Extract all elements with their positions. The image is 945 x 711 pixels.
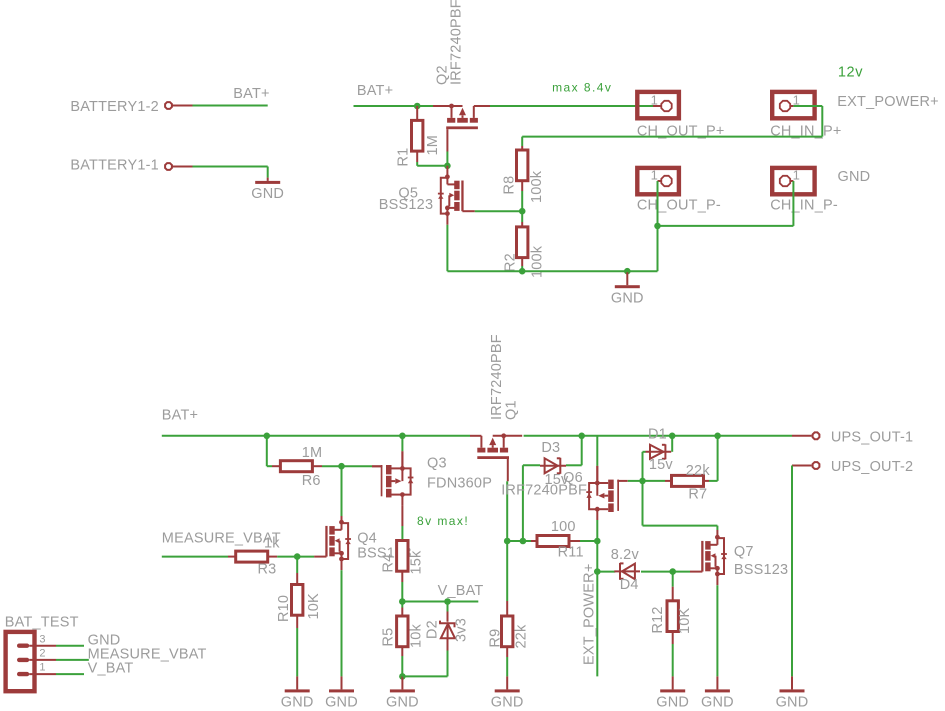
junction R11/EXT_POWER+ bbox=[594, 538, 601, 545]
junction GND stub bbox=[624, 268, 631, 275]
wire R6 to node bbox=[322, 465, 342, 467]
wire node to R5 bbox=[401, 602, 403, 608]
connector CH_IN_P+ bbox=[772, 92, 814, 118]
wire node down to R9 bbox=[506, 541, 508, 601]
svg-text:10k: 10k bbox=[409, 623, 425, 648]
ground GND1 bbox=[267, 178, 269, 181]
connector CH_IN_P- bbox=[772, 168, 814, 194]
wire UPS_OUT rail bbox=[524, 435, 792, 437]
pin line BATTERY1-2 bbox=[172, 105, 192, 107]
svg-text:GND: GND bbox=[838, 169, 871, 185]
svg-text:100: 100 bbox=[551, 519, 576, 535]
wire CH_OUT_P- to CH_IN_P- bbox=[658, 225, 794, 227]
R10 top lead bbox=[296, 573, 298, 585]
wire D4 to R12 node bbox=[641, 571, 673, 573]
svg-text:MEASURE_VBAT: MEASURE_VBAT bbox=[162, 531, 281, 547]
wire node to Q4 gate bbox=[297, 556, 314, 558]
wire across to R8 bbox=[522, 136, 822, 138]
wire node down to Q4 bbox=[341, 466, 343, 516]
ground GND R5 bbox=[401, 676, 403, 689]
R1 top lead bbox=[416, 106, 418, 120]
resistor R3 1k bbox=[236, 551, 268, 562]
pin line UPS_OUT-1 bbox=[792, 435, 812, 437]
resistor R8 100k bbox=[517, 150, 528, 181]
svg-text:BAT+: BAT+ bbox=[357, 83, 393, 99]
wire down to ground bbox=[267, 167, 269, 178]
diode D2 zener 3v3 bbox=[439, 621, 455, 639]
wire R2 to rail bbox=[521, 266, 523, 271]
svg-text:15v: 15v bbox=[649, 457, 674, 473]
svg-text:1M: 1M bbox=[302, 445, 323, 461]
pin line BAT_TEST 2 bbox=[29, 659, 56, 661]
diode D4 zener 8.2v bbox=[614, 563, 640, 580]
wire down to Q7 bbox=[716, 526, 718, 530]
svg-text:R10: R10 bbox=[276, 595, 292, 622]
junction D3 anode/R11 bbox=[520, 538, 527, 545]
junction Q3 source branch bbox=[399, 433, 406, 440]
Q3 gate lead wire bbox=[372, 465, 381, 467]
svg-text:1: 1 bbox=[793, 168, 800, 183]
wire net GND from BATTERY1-1 bbox=[193, 166, 268, 168]
svg-text:EXT_POWER+: EXT_POWER+ bbox=[837, 94, 939, 110]
R11 left lead bbox=[531, 540, 537, 542]
svg-text:Q4: Q4 bbox=[357, 531, 377, 547]
wire to rail bbox=[717, 436, 719, 481]
resistor R5 10k bbox=[397, 616, 408, 647]
transistor Q4 BSS123 bbox=[314, 520, 351, 570]
pin line CH_IN_P- bbox=[790, 180, 794, 182]
wire Q2 gate to node bbox=[446, 152, 448, 166]
ground GND Q4 bbox=[341, 676, 343, 689]
svg-text:R4: R4 bbox=[381, 554, 397, 573]
resistor R7 22k bbox=[672, 475, 704, 486]
junction Q6 gate/D1/R7 bbox=[639, 478, 646, 485]
wire Q2 drain to CH_OUT_P+ bbox=[490, 105, 653, 107]
R5 top lead bbox=[401, 608, 403, 617]
R6 left lead bbox=[272, 465, 280, 467]
svg-text:GND: GND bbox=[386, 695, 419, 711]
pin line UPS_OUT-2 bbox=[792, 465, 812, 467]
R12 top lead bbox=[672, 587, 674, 601]
pad CH_OUT_P- pin 1 bbox=[661, 176, 671, 186]
svg-text:100k: 100k bbox=[529, 170, 545, 203]
pin line BAT_TEST 3 bbox=[29, 645, 56, 647]
junction R6/Q3 gate/Q4 drain bbox=[338, 463, 345, 470]
wire BAT_TEST pin 2 bbox=[56, 659, 89, 661]
R1 bottom lead bbox=[416, 151, 418, 162]
wire down to R8 bbox=[521, 137, 523, 146]
svg-text:R7: R7 bbox=[688, 487, 707, 503]
wire D3 to rail riser bbox=[566, 464, 582, 466]
pin line BAT_TEST 1 bbox=[29, 673, 56, 675]
wire node to Q7 gate bbox=[673, 571, 690, 573]
wire node to R7 bbox=[643, 480, 666, 482]
wire to R6 bbox=[267, 465, 272, 467]
Q7 drain lead bbox=[716, 530, 718, 537]
R3 left lead bbox=[228, 556, 236, 558]
wire BAT_TEST pin 3 bbox=[56, 645, 84, 647]
svg-text:2: 2 bbox=[39, 648, 45, 660]
wire R3 to node bbox=[277, 556, 297, 558]
R8 top lead bbox=[521, 146, 523, 150]
svg-text:22k: 22k bbox=[686, 463, 711, 479]
svg-text:D2: D2 bbox=[425, 620, 441, 639]
pin line CH_OUT_P- bbox=[658, 180, 662, 182]
pad CH_IN_P- pin 1 bbox=[780, 176, 790, 186]
wire to D1 bbox=[643, 451, 646, 453]
wire R7 right up bbox=[709, 480, 718, 482]
wire EXT_POWER+ down bbox=[596, 541, 598, 676]
R5 bottom lead bbox=[401, 647, 403, 656]
pad CH_IN_P+ pin 1 bbox=[780, 101, 790, 111]
R7 right lead bbox=[704, 480, 710, 482]
svg-text:D1: D1 bbox=[648, 427, 667, 443]
wire EXT_POWER+ to D4 bbox=[597, 571, 615, 573]
svg-text:Q1: Q1 bbox=[504, 400, 520, 420]
svg-text:1: 1 bbox=[39, 662, 45, 674]
resistor R6 1M bbox=[280, 461, 312, 472]
junction R1 top bbox=[414, 103, 421, 110]
wire R4 to V_BAT node bbox=[401, 582, 403, 602]
wire BAT+ rail bbox=[162, 435, 470, 437]
connector CH_OUT_P- bbox=[637, 168, 679, 194]
svg-text:GND: GND bbox=[281, 695, 314, 711]
junction R7 branch bbox=[714, 433, 721, 440]
R3 right lead bbox=[268, 556, 278, 558]
svg-text:CH_OUT_P-: CH_OUT_P- bbox=[637, 198, 721, 214]
svg-text:EXT_POWER+: EXT_POWER+ bbox=[582, 563, 598, 665]
transistor Q2 IRF7240PBF bbox=[433, 104, 490, 152]
svg-text:GND: GND bbox=[611, 290, 644, 306]
svg-text:8.2v: 8.2v bbox=[611, 547, 640, 563]
svg-text:22k: 22k bbox=[514, 624, 530, 649]
svg-text:V_BAT: V_BAT bbox=[88, 661, 134, 677]
Q3 source lead bbox=[401, 451, 403, 468]
svg-text:UPS_OUT-2: UPS_OUT-2 bbox=[831, 459, 913, 475]
svg-text:GND: GND bbox=[325, 695, 358, 711]
svg-text:8v max!: 8v max! bbox=[417, 514, 469, 528]
wire UPS_OUT-2 to ground bbox=[791, 466, 793, 677]
transistor Q3 FDN360P bbox=[372, 451, 413, 505]
wire down to R6 bbox=[266, 436, 268, 466]
transistor Q6 IRF7240PBF bbox=[586, 466, 627, 520]
Q4 drain lead bbox=[341, 516, 343, 522]
wire D2 down bbox=[447, 651, 449, 677]
wire riser to rail bbox=[581, 436, 583, 466]
wire R1 bottom to Q5 node bbox=[417, 165, 447, 167]
wire Q4 source to ground bbox=[341, 570, 343, 676]
wire Q3 drain to R4 bbox=[401, 526, 403, 541]
svg-text:D3: D3 bbox=[541, 440, 560, 456]
connector BAT_TEST bbox=[6, 632, 35, 691]
svg-text:R6: R6 bbox=[302, 473, 321, 489]
junction D3 branch bbox=[578, 433, 585, 440]
svg-text:BATTERY1-1: BATTERY1-1 bbox=[70, 158, 158, 174]
pad CH_OUT_P+ pin 1 bbox=[661, 101, 671, 111]
junction R5/D2 ground node bbox=[399, 673, 406, 680]
svg-text:GND: GND bbox=[701, 695, 734, 711]
wire node to node bbox=[507, 540, 523, 542]
Q6 source lead bbox=[596, 466, 598, 483]
pad BAT_TEST pin 1 bbox=[17, 672, 29, 676]
pin UPS_OUT-1 bbox=[813, 432, 820, 439]
svg-text:Q7: Q7 bbox=[734, 544, 754, 560]
svg-text:BAT+: BAT+ bbox=[233, 86, 269, 102]
wire R10 to ground bbox=[296, 628, 298, 676]
svg-text:GND: GND bbox=[251, 186, 284, 202]
ground GND UPS_OUT-2 bbox=[791, 676, 793, 689]
wire node to D2 bbox=[447, 602, 449, 612]
svg-text:R8: R8 bbox=[502, 176, 518, 195]
junction R6 branch bbox=[264, 433, 271, 440]
resistor R11 100 bbox=[537, 536, 569, 547]
wire R12 to ground bbox=[672, 644, 674, 676]
wire node down to R12 bbox=[672, 572, 674, 587]
junction D1 branch bbox=[669, 433, 676, 440]
junction CH_P- net bbox=[654, 223, 661, 230]
svg-text:1M: 1M bbox=[425, 135, 441, 156]
wire V_BAT bbox=[402, 601, 478, 603]
svg-text:BATTERY1-2: BATTERY1-2 bbox=[70, 99, 158, 115]
svg-text:R9: R9 bbox=[488, 629, 504, 648]
svg-text:D4: D4 bbox=[620, 577, 639, 593]
svg-text:BSS123: BSS123 bbox=[379, 197, 433, 213]
svg-text:GND: GND bbox=[491, 695, 524, 711]
pin BATTERY1-2 bbox=[165, 102, 172, 109]
junction Q1 gate/R9/R11 bbox=[504, 538, 511, 545]
diode D3 zener 15v bbox=[540, 458, 566, 474]
wire Q6 drain down bbox=[596, 520, 598, 541]
svg-text:R11: R11 bbox=[558, 545, 584, 561]
pin BATTERY1-1 bbox=[165, 163, 172, 170]
svg-text:BAT+: BAT+ bbox=[162, 408, 198, 424]
ground GND Q7 bbox=[716, 676, 718, 689]
wire BAT_TEST pin 1 bbox=[56, 673, 84, 675]
R7 left lead bbox=[665, 480, 672, 482]
junction D4 branch bbox=[594, 568, 601, 575]
wire D2 to ground node bbox=[402, 675, 447, 677]
wire net BAT+ (left) bbox=[193, 105, 268, 107]
wire BAT+ to R1 junction bbox=[354, 105, 418, 107]
junction R4/R5 bbox=[399, 598, 406, 605]
wire R1 to junction bbox=[416, 162, 418, 166]
pin line CH_IN_P+ bbox=[790, 105, 794, 107]
wire R8 to node bbox=[521, 191, 523, 211]
junction R12/Q7 gate bbox=[669, 568, 676, 575]
wire across to Q7 bbox=[643, 525, 718, 527]
wire D3 anode riser bbox=[522, 465, 524, 541]
svg-text:GND: GND bbox=[776, 695, 809, 711]
Q5 drain lead bbox=[446, 166, 448, 177]
svg-text:max 8.4v: max 8.4v bbox=[552, 80, 612, 94]
wire Q7 source to ground bbox=[716, 585, 718, 676]
transistor Q1 IRF7240PBF bbox=[470, 433, 522, 481]
svg-text:CH_IN_P-: CH_IN_P- bbox=[770, 198, 838, 214]
diode D1 zener 15v bbox=[646, 444, 672, 459]
wire Q6 gate to node bbox=[628, 480, 643, 482]
junction R2 bottom bbox=[519, 268, 526, 275]
wire Q5 source down bbox=[446, 225, 448, 271]
ground GND2 bbox=[626, 272, 628, 285]
junction R3/R10/Q4 gate bbox=[294, 553, 301, 560]
svg-text:R1: R1 bbox=[396, 148, 412, 167]
pad BAT_TEST pin 2 bbox=[17, 658, 29, 662]
svg-text:GND: GND bbox=[656, 695, 689, 711]
pin line BATTERY1-1 bbox=[172, 166, 192, 168]
wire rail to Q3 source bbox=[401, 436, 403, 452]
wire CH_IN_P+ right bbox=[793, 105, 822, 107]
wire MEASURE_VBAT bbox=[162, 556, 228, 558]
svg-text:R2: R2 bbox=[503, 253, 519, 272]
R4 bottom lead bbox=[401, 571, 403, 582]
resistor R2 100k bbox=[517, 227, 528, 258]
wire CH_OUT_P- down to rail bbox=[657, 181, 659, 271]
wire down bbox=[821, 106, 823, 137]
D2 cathode lead bbox=[447, 612, 449, 622]
svg-text:1: 1 bbox=[651, 168, 658, 183]
svg-text:V_BAT: V_BAT bbox=[438, 583, 484, 599]
connector CH_OUT_P+ bbox=[637, 92, 679, 118]
svg-text:10K: 10K bbox=[306, 593, 322, 620]
wire Q5 gate to R8/R2 node bbox=[475, 210, 522, 212]
svg-text:R12: R12 bbox=[650, 606, 666, 633]
svg-text:BSS123: BSS123 bbox=[734, 562, 788, 578]
wire D1 anode riser bbox=[642, 452, 644, 481]
resistor R1 1M bbox=[412, 120, 423, 151]
pad BAT_TEST pin 3 bbox=[17, 644, 29, 648]
svg-text:FDN360P: FDN360P bbox=[427, 476, 492, 492]
junction Q2 gate / Q5 drain node bbox=[444, 163, 451, 170]
resistor R4 15k bbox=[397, 541, 408, 572]
pin line CH_OUT_P+ bbox=[653, 105, 661, 107]
wire R11 to EXT_POWER+ bbox=[580, 540, 597, 542]
wire node to Q3 gate bbox=[342, 465, 373, 467]
svg-text:15k: 15k bbox=[409, 550, 425, 575]
resistor R10 10K bbox=[292, 585, 303, 616]
transistor Q7 BSS123 bbox=[690, 535, 727, 585]
R6 right lead bbox=[312, 465, 322, 467]
wire node down to R10 bbox=[296, 557, 298, 573]
svg-text:BAT_TEST: BAT_TEST bbox=[5, 614, 79, 630]
junction D2 branch bbox=[444, 598, 451, 605]
R8 bottom lead bbox=[521, 181, 523, 191]
svg-text:10K: 10K bbox=[677, 607, 693, 634]
wire rail to Q6 source bbox=[596, 436, 598, 466]
R9 bottom lead bbox=[506, 647, 508, 657]
wire D1 to rail bbox=[671, 436, 673, 452]
R11 right lead bbox=[569, 540, 580, 542]
svg-text:100k: 100k bbox=[530, 245, 546, 278]
R9 top lead bbox=[506, 601, 508, 616]
svg-text:R3: R3 bbox=[258, 562, 277, 578]
svg-text:1k: 1k bbox=[264, 536, 280, 552]
wire junction to Q2 source bbox=[417, 105, 433, 107]
R12 bottom lead bbox=[672, 632, 674, 645]
wire node to R11 bbox=[523, 540, 531, 542]
resistor R9 22k bbox=[502, 616, 513, 647]
svg-text:IRF7240PBF: IRF7240PBF bbox=[449, 0, 465, 85]
svg-text:Q3: Q3 bbox=[427, 456, 447, 472]
svg-text:12v: 12v bbox=[838, 65, 863, 81]
wire Q1 gate down bbox=[506, 481, 508, 541]
wire to D3 bbox=[523, 464, 540, 466]
svg-text:3: 3 bbox=[39, 633, 45, 645]
R10 bottom lead bbox=[296, 615, 298, 628]
svg-text:R5: R5 bbox=[381, 628, 397, 647]
wire ground rail bbox=[447, 270, 657, 272]
resistor R12 10K bbox=[667, 601, 678, 632]
svg-text:UPS_OUT-1: UPS_OUT-1 bbox=[831, 430, 913, 446]
ground GND R12 bbox=[672, 676, 674, 689]
Q3 drain lead bbox=[401, 505, 403, 526]
svg-text:IRF7240PBF: IRF7240PBF bbox=[501, 482, 587, 498]
pin UPS_OUT-2 bbox=[813, 462, 820, 469]
ground GND R10 bbox=[296, 676, 298, 689]
wire node down bbox=[642, 481, 644, 526]
R2 bottom lead bbox=[521, 258, 523, 266]
wire R5 to ground bbox=[401, 656, 403, 676]
wire CH_IN_P- down bbox=[792, 181, 794, 226]
R2 top lead bbox=[521, 222, 523, 227]
wire node to R2 bbox=[521, 211, 523, 222]
svg-text:3v3: 3v3 bbox=[454, 618, 470, 642]
wire R9 to ground bbox=[506, 657, 508, 676]
svg-text:1: 1 bbox=[651, 93, 658, 108]
transistor Q5 BSS123 bbox=[438, 174, 475, 224]
junction R8/R2/Q5 gate bbox=[519, 208, 526, 215]
D2 anode lead bbox=[447, 638, 449, 651]
ground GND R9 bbox=[506, 676, 508, 689]
